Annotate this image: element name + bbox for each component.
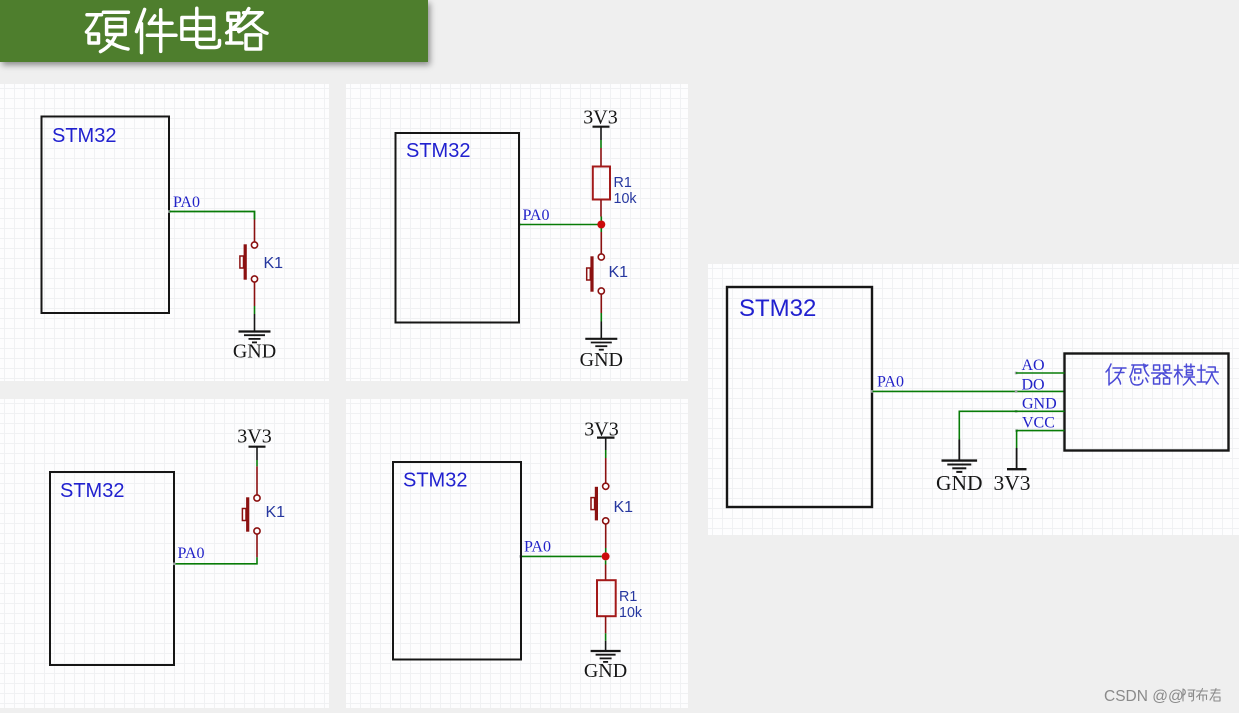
- svg-text:PA0: PA0: [523, 207, 550, 224]
- wire green below node (panel 4): [605, 560, 607, 564]
- wire green segment top (panel 3): [256, 460, 258, 466]
- resistor R1 (panel 4): [597, 580, 616, 616]
- wire VCC green (panel 5): [1017, 431, 1065, 448]
- STM32 chip box (panel 3): [50, 472, 174, 665]
- svg-text:PA0: PA0: [524, 539, 551, 556]
- STM32 chip box (panel 5): [727, 287, 872, 507]
- wire switch down red (panel 3): [256, 534, 258, 558]
- wire PA0 green (panel 3): [175, 557, 258, 564]
- wire vertical red to switch (panel 1): [254, 220, 256, 243]
- pin dot PA0 (panel 1): [168, 210, 171, 213]
- wire green segment bottom (panel 2): [600, 313, 602, 322]
- svg-text:CSDN @@: CSDN @@: [1104, 688, 1184, 705]
- svg-text:STM32: STM32: [406, 140, 470, 162]
- wire red to switch (panel 2): [600, 232, 602, 254]
- sensor module box (panel 5): [1065, 354, 1229, 451]
- wire GND green (panel 5): [959, 411, 1064, 439]
- green title banner: [0, 0, 428, 62]
- switch K1 (panel 2): [587, 254, 605, 294]
- svg-text:K1: K1: [264, 255, 284, 272]
- wire green segment top (panel 4): [605, 450, 607, 458]
- pin dot PA0 (panel 3): [173, 563, 176, 566]
- grid panel top-left: [0, 84, 329, 381]
- pin dot VCC (panel 5): [1015, 429, 1018, 432]
- junction node (panel 2): [597, 221, 605, 229]
- wire green segment (panel 1): [254, 306, 256, 314]
- pin dot PA0 (panel 4): [520, 555, 523, 558]
- svg-text:PA0: PA0: [178, 545, 205, 562]
- ground stub (panel 4): [605, 641, 607, 651]
- svg-text:GND: GND: [580, 349, 623, 371]
- pin dot PA0 (panel 2): [518, 223, 521, 226]
- STM32 chip box (panel 2): [396, 133, 520, 323]
- svg-text:R1: R1: [614, 175, 632, 191]
- ground stub (panel 5): [958, 440, 960, 461]
- wire resistor down red (panel 4): [605, 616, 607, 633]
- svg-text:3V3: 3V3: [583, 107, 617, 129]
- svg-text:K1: K1: [614, 499, 634, 516]
- svg-text:R1: R1: [619, 589, 637, 605]
- ground symbol (panel 5): [942, 461, 978, 472]
- svg-text:K1: K1: [266, 504, 286, 521]
- svg-text:STM32: STM32: [52, 125, 116, 147]
- svg-text:AO: AO: [1022, 357, 1045, 374]
- pin dot PA0 (panel 5): [871, 390, 874, 393]
- wire switch to ground red (panel 1): [254, 282, 256, 306]
- svg-text:STM32: STM32: [60, 480, 124, 502]
- wire red to switch (panel 3): [256, 466, 258, 495]
- power stub 3V3 (panel 5): [1016, 448, 1018, 469]
- power bar 3V3 (panel 2): [593, 126, 610, 128]
- switch K1 (panel 3): [242, 495, 260, 534]
- wire red to resistor (panel 2): [600, 148, 602, 167]
- switch K1 (panel 1): [240, 242, 258, 282]
- wire green above node (panel 2): [600, 217, 602, 221]
- svg-text:10k: 10k: [614, 191, 638, 207]
- svg-text:DO: DO: [1022, 376, 1045, 393]
- wire PA0 to DO green (panel 5): [873, 390, 1065, 392]
- ground symbol (panel 4): [591, 651, 621, 662]
- watermark 阿布君 glyphs: [1183, 689, 1220, 702]
- wire red to switch (panel 4): [605, 458, 607, 484]
- grid panel top-middle: [346, 84, 688, 381]
- svg-text:GND: GND: [936, 471, 983, 495]
- power bar 3V3 (panel 4): [597, 437, 615, 439]
- wire PA0 to node green (panel 4): [522, 555, 602, 557]
- grid panel bottom-left: [0, 399, 329, 708]
- svg-text:VCC: VCC: [1022, 415, 1055, 432]
- wire switch to node red (panel 4): [605, 524, 607, 548]
- wire PA0 horizontal green (panel 1): [170, 212, 255, 220]
- grid panel bottom-middle: [346, 399, 688, 708]
- svg-text:GND: GND: [233, 341, 276, 363]
- wire green below node (panel 2): [600, 228, 602, 232]
- label sensor module 传感器模块 (hand-drawn glyphs, panel 5): [1106, 364, 1218, 385]
- pin dot GND (panel 5): [1015, 410, 1018, 413]
- pin dot AO (panel 5): [1015, 372, 1018, 375]
- junction node (panel 4): [602, 552, 610, 560]
- svg-text:PA0: PA0: [173, 194, 200, 211]
- wire black below 3V3 (panel 4): [605, 439, 607, 451]
- power bar 3V3 inverted (panel 5): [1007, 468, 1027, 470]
- pin dot DO (panel 5): [1015, 390, 1018, 393]
- svg-text:10k: 10k: [619, 605, 643, 621]
- wire black below 3V3 (panel 3): [256, 448, 258, 461]
- ground stub (panel 1): [254, 314, 256, 331]
- wire AO green (panel 5): [1016, 372, 1065, 374]
- svg-text:3V3: 3V3: [993, 471, 1030, 495]
- STM32 chip box (panel 4): [393, 462, 521, 660]
- wire node to resistor red (panel 4): [605, 565, 607, 581]
- wire black below 3V3 (panel 2): [600, 128, 602, 141]
- ground stub (panel 2): [600, 322, 602, 339]
- svg-text:3V3: 3V3: [237, 426, 271, 448]
- grid panel right: [708, 264, 1239, 535]
- svg-text:STM32: STM32: [739, 295, 816, 322]
- svg-text:STM32: STM32: [403, 470, 467, 492]
- wire green segment bottom (panel 4): [605, 633, 607, 640]
- wire resistor to node red (panel 2): [600, 200, 602, 217]
- svg-text:K1: K1: [609, 264, 629, 281]
- banner title 硬件电路 (hand-drawn glyphs): [84, 5, 276, 56]
- svg-text:PA0: PA0: [877, 374, 904, 391]
- svg-text:GND: GND: [1022, 395, 1057, 412]
- wire PA0 to node green (panel 2): [520, 224, 598, 226]
- ground symbol (panel 1): [239, 332, 271, 343]
- wire green segment top (panel 2): [600, 140, 602, 148]
- wire green above node (panel 4): [605, 548, 607, 552]
- STM32 chip box (panel 1): [42, 117, 170, 314]
- ground symbol (panel 2): [585, 339, 617, 350]
- switch K1 (panel 4): [591, 483, 609, 524]
- power bar 3V3 (panel 3): [249, 446, 266, 448]
- svg-text:GND: GND: [584, 660, 627, 682]
- wire switch to ground red (panel 2): [600, 294, 602, 313]
- resistor R1 (panel 2): [593, 167, 610, 200]
